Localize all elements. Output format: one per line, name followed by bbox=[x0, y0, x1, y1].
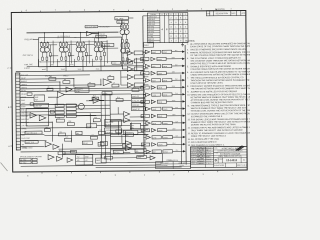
wire segment V3 bbox=[100, 79, 102, 85]
label box: OSC OUT 2 bbox=[96, 35, 107, 38]
resistor box R23 bbox=[66, 114, 76, 117]
component box CB18 bbox=[50, 110, 54, 113]
wire: driver chain link 3 bbox=[143, 68, 145, 71]
wire: driver D15 output arrow bbox=[173, 150, 186, 153]
wire: driver D10 input bbox=[144, 115, 146, 117]
gate U23 bbox=[93, 97, 100, 103]
wire: driver D11 input bbox=[144, 122, 146, 124]
wire segment V15 bbox=[136, 58, 138, 71]
transistor pair Q3/Q4 bbox=[59, 41, 68, 60]
gate U7A bbox=[48, 155, 54, 160]
wire: bottom long bus bbox=[21, 165, 161, 166]
junction J4 bbox=[110, 121, 111, 122]
register box B4 bbox=[132, 107, 146, 111]
wire segment OSCV2 bbox=[70, 41, 72, 64]
resistor box R20 bbox=[66, 104, 76, 107]
ground symbol below table bbox=[182, 43, 184, 45]
gate U2A bbox=[58, 92, 65, 98]
wire segment V13 bbox=[109, 94, 111, 118]
component box CB16 bbox=[90, 136, 97, 139]
relay contact box K1 bbox=[55, 104, 64, 107]
wire segment OSCH5 bbox=[68, 55, 74, 57]
box: sel aux bbox=[135, 149, 144, 152]
resistor box R21 bbox=[66, 107, 76, 110]
title block extra rules bbox=[214, 149, 247, 151]
junction divider bus J18 bbox=[143, 66, 144, 67]
wire: driver D13 input bbox=[144, 136, 146, 138]
wire segment LM7 bbox=[123, 151, 130, 153]
wire: driver D7 output arrow bbox=[172, 93, 185, 96]
wire: driver chain link 4 bbox=[143, 75, 145, 78]
wire: driver D4 input bbox=[143, 72, 145, 74]
wire: driver D7 input bbox=[144, 94, 146, 96]
gate U6A bbox=[45, 141, 51, 146]
gate U21A bbox=[125, 141, 131, 146]
label box: top right 1 bbox=[115, 17, 129, 20]
wire segment AUX4 bbox=[63, 152, 111, 154]
wire: driver D12 input bbox=[144, 129, 146, 131]
label box gate U13 bbox=[134, 83, 143, 87]
label pill: LINE FREQ CLK bbox=[25, 131, 42, 134]
wire segment AUX11 bbox=[45, 104, 55, 106]
junction J5 bbox=[110, 130, 111, 131]
driver stage D6 bbox=[141, 86, 167, 90]
wire: option internal bbox=[113, 157, 137, 159]
junction divider bus J19 bbox=[143, 73, 144, 74]
wire segment V1 bbox=[109, 118, 111, 160]
pill: option in bbox=[105, 156, 113, 159]
label box: top right 2 bbox=[117, 20, 129, 23]
relay contact box K2 bbox=[55, 108, 64, 111]
component box CB19 bbox=[108, 77, 114, 80]
wire: stage 3 to bottom bus bbox=[82, 60, 84, 71]
wire: driver chain link 2 bbox=[143, 61, 145, 64]
title block number row bbox=[217, 158, 219, 163]
wire: bottom second bus bbox=[96, 166, 182, 169]
component box CB8 bbox=[116, 99, 123, 102]
junction divider bus J23 bbox=[143, 101, 144, 102]
wire: driver chain link 12 bbox=[144, 132, 146, 135]
wire: driver chain link 14 bbox=[144, 147, 146, 150]
driver stage D14 bbox=[141, 143, 167, 147]
resistor box R22 bbox=[66, 111, 76, 114]
wire segment AUX2 bbox=[110, 135, 125, 137]
driver stage D10 bbox=[141, 114, 167, 118]
wire: gate U10 link bbox=[133, 60, 134, 62]
wire segment V14 bbox=[117, 121, 119, 135]
gate U20A bbox=[124, 111, 130, 116]
junction J1 bbox=[73, 78, 74, 79]
wire: driver D13 output arrow bbox=[172, 135, 185, 138]
pill: interlock row2 bbox=[76, 131, 82, 135]
wire: osc box internal hairline 2 bbox=[40, 60, 121, 63]
connector J1 pins bbox=[16, 75, 21, 148]
junction divider bus J27 bbox=[143, 130, 144, 131]
junction divider bus J20 bbox=[143, 80, 144, 81]
wire segment AUX14 bbox=[76, 111, 101, 113]
label pill: divider adj bbox=[102, 43, 114, 46]
application block bbox=[156, 161, 191, 169]
component box CB17 bbox=[30, 103, 34, 105]
driver stage D5 bbox=[145, 78, 171, 82]
resistor box R41 bbox=[32, 161, 37, 163]
table left column rows bbox=[147, 17, 159, 19]
wire segment H14 bbox=[65, 93, 131, 96]
wire: freq adj lead bbox=[33, 39, 38, 41]
wire segment AUX6 bbox=[133, 134, 148, 136]
driver stage D13 bbox=[146, 135, 172, 139]
wire: driver D1 input bbox=[143, 51, 145, 53]
resistor box R40 bbox=[32, 158, 37, 160]
wire: driver D9 input bbox=[144, 108, 146, 110]
wire: gate U11 link bbox=[133, 68, 134, 70]
wire segment LV5 bbox=[121, 135, 123, 143]
sub-bus frequency labels bbox=[42, 68, 100, 71]
transistor pair Q5/Q6 bbox=[76, 41, 85, 60]
wire: driver D6 output arrow bbox=[166, 86, 185, 89]
wire segment V12 bbox=[70, 131, 72, 143]
driver stage D7 bbox=[146, 93, 172, 97]
wire: driver D4 output arrow bbox=[166, 71, 185, 74]
wire segment OSCV4 bbox=[106, 40, 108, 63]
junction divider bus J30 bbox=[144, 151, 145, 152]
component box CB9 bbox=[56, 119, 64, 122]
component box CB15 bbox=[64, 138, 71, 141]
wire: driver D6 input bbox=[143, 87, 145, 89]
register box B3 bbox=[132, 103, 146, 107]
label pill: sync a bbox=[112, 61, 121, 64]
box: count control A9 bbox=[104, 128, 121, 134]
component box CB13 bbox=[93, 119, 100, 122]
label pill: P2 filter B bbox=[20, 161, 32, 164]
driver stage D1 bbox=[145, 50, 171, 54]
wire: vertical bus to table bbox=[142, 16, 145, 90]
gate U6B bbox=[53, 144, 59, 149]
wire segment H24 bbox=[63, 153, 106, 155]
label pill: interlock bbox=[86, 124, 96, 128]
wire: driver chain link 8 bbox=[144, 104, 146, 107]
driver stage D15 bbox=[146, 150, 172, 154]
wire segment AUX10 bbox=[20, 107, 55, 109]
driver stage D8 bbox=[141, 100, 167, 104]
wire segment AUX8 bbox=[20, 111, 55, 113]
junction dot stage 4 bbox=[98, 32, 99, 33]
transistor pair Q11/Q12 bbox=[121, 42, 130, 61]
transistor pair Q1/Q2 bbox=[40, 41, 49, 60]
wire segment LV3 bbox=[117, 107, 119, 114]
wire: driver D1 output arrow bbox=[172, 50, 185, 53]
wire segment V7 bbox=[56, 97, 58, 105]
junction divider bus J22 bbox=[143, 94, 144, 95]
pill: option link bbox=[113, 150, 123, 153]
wire segment OSCH2 bbox=[68, 44, 76, 46]
wire: gate U11 input stub bbox=[122, 68, 127, 70]
component box CB1 bbox=[49, 78, 56, 81]
wire: driver D5 output arrow bbox=[172, 78, 185, 81]
wire: buffer output bbox=[92, 33, 99, 35]
wire segment H18 bbox=[110, 129, 148, 131]
pill: option mid bbox=[137, 156, 147, 159]
wire segment AUX7 bbox=[97, 153, 111, 155]
pill: C14 bbox=[98, 142, 104, 146]
wire: gate U13 input stub bbox=[121, 84, 127, 86]
wire segment OSCV3 bbox=[88, 40, 90, 63]
component box CB10 bbox=[67, 122, 74, 125]
box: control below table bbox=[144, 42, 154, 47]
wire segment H8 bbox=[20, 121, 52, 123]
component box CB20 bbox=[132, 88, 139, 91]
scan noise overlay bbox=[0, 0, 1, 1]
label box: OSC OUT 1 bbox=[85, 25, 98, 28]
border zone ticks bbox=[9, 9, 218, 174]
wire segment LM4 bbox=[110, 142, 125, 144]
connector pin labels bbox=[21, 75, 31, 150]
wire: gate U12 input stub bbox=[121, 76, 127, 78]
wire: driver chain link 1 bbox=[143, 54, 145, 57]
wire segment OSCH6 bbox=[85, 55, 92, 57]
paper background bbox=[0, 0, 250, 177]
wire segment H3 bbox=[20, 84, 101, 87]
wire: driver D11 output arrow bbox=[172, 121, 185, 124]
register box B1 bbox=[131, 94, 145, 98]
box: schmitt trigger bbox=[75, 87, 89, 92]
wire: driver D10 output arrow bbox=[167, 114, 186, 117]
junction divider bus J24 bbox=[143, 108, 144, 109]
junction divider bus J16 bbox=[143, 51, 144, 52]
wire: gate U12 link bbox=[133, 76, 134, 78]
wire: driver D2 input bbox=[143, 58, 145, 60]
gate U10 bbox=[127, 59, 133, 64]
component box CB6 bbox=[92, 97, 99, 100]
wire: driver D3 output arrow bbox=[172, 64, 185, 67]
wire: mid horizontal runs bbox=[20, 78, 149, 155]
gate U22 bbox=[150, 156, 155, 160]
wire: driver chain link 9 bbox=[144, 111, 146, 114]
label box gate U10 bbox=[134, 59, 143, 63]
wire segment H1 bbox=[20, 78, 74, 80]
wire segment AUX9 bbox=[20, 114, 55, 116]
junction J2 bbox=[59, 81, 60, 82]
wire segment V5 bbox=[51, 122, 53, 141]
wire segment LV2 bbox=[104, 91, 106, 127]
gate U20B bbox=[124, 117, 130, 122]
component box CB5 bbox=[47, 88, 53, 91]
wire segment AUX3 bbox=[111, 149, 135, 151]
wire segment H23 bbox=[59, 147, 147, 150]
component box CB14 bbox=[98, 131, 105, 134]
label box gate U11 bbox=[134, 67, 143, 71]
junction divider bus J25 bbox=[143, 116, 144, 117]
wire segment H10 bbox=[20, 133, 44, 135]
wire: driver D8 input bbox=[144, 101, 146, 103]
driver stage D4 bbox=[141, 71, 167, 75]
wire segment AUX13 bbox=[76, 108, 110, 110]
gate U8 bbox=[67, 158, 73, 163]
component box CB7 bbox=[112, 84, 119, 87]
wire segment H20 bbox=[21, 150, 76, 152]
gate U21B bbox=[125, 146, 131, 151]
wire: driver D12 output arrow bbox=[167, 128, 186, 131]
wire: stage 4 to top bus bbox=[97, 32, 99, 41]
wire: gate U9 link bbox=[133, 52, 134, 54]
wire: lower osc bus bbox=[16, 70, 143, 71]
junction dot stage 1 bbox=[44, 32, 45, 33]
wire segment AUX15 bbox=[76, 115, 96, 117]
wire segment V4 bbox=[59, 82, 61, 92]
junction divider bus J28 bbox=[143, 137, 144, 138]
wire: stage 2 to top bus bbox=[62, 33, 64, 42]
transistor pair Q7/Q8 bbox=[94, 41, 103, 60]
amplifier block A7 bbox=[26, 109, 49, 126]
wire segment LM10 bbox=[100, 94, 102, 96]
wire: driver D5 input bbox=[143, 79, 145, 81]
component box CB4 bbox=[27, 93, 32, 95]
option enclosure box bbox=[101, 154, 163, 163]
wire segment H2 bbox=[20, 81, 60, 83]
label box gate U9 bbox=[134, 51, 143, 55]
title block approvals column bbox=[212, 147, 214, 168]
wire segment H22 bbox=[44, 134, 110, 137]
wire segment LM2 bbox=[110, 119, 123, 121]
wire segment V6 bbox=[89, 113, 91, 127]
wire segment H13 bbox=[20, 90, 143, 91]
junction divider bus J17 bbox=[143, 59, 144, 60]
gate U12 bbox=[127, 75, 133, 80]
junction dot stage 3 bbox=[80, 32, 81, 33]
wire segment H5 bbox=[20, 96, 34, 98]
box: gate aux bbox=[122, 144, 131, 148]
driver stage D12 bbox=[141, 128, 167, 132]
wire: intra-oscillator verticals bbox=[49, 40, 118, 64]
wire: stage 1 to top bus bbox=[43, 33, 45, 42]
wire segment H6 bbox=[48, 96, 57, 98]
wire segment AUX5 bbox=[110, 145, 122, 147]
component box CB21 bbox=[58, 152, 65, 155]
junction divider bus J21 bbox=[143, 87, 144, 88]
node: right boundary bus bbox=[185, 45, 186, 164]
wire: gate U10 input stub bbox=[122, 60, 127, 62]
transistor pair Q9/Q10 bbox=[120, 24, 129, 43]
wire: gate U13 link bbox=[133, 84, 134, 86]
wire segment V11 bbox=[124, 131, 126, 144]
power supply box cluster bbox=[76, 155, 93, 165]
label pill: P2 filter A bbox=[20, 158, 32, 161]
osc bottom component stubs bbox=[38, 44, 105, 66]
wire segment H7 bbox=[20, 103, 77, 105]
component box CB12 bbox=[58, 133, 65, 136]
op-amp U4 bbox=[30, 113, 37, 118]
gate U3 bbox=[103, 79, 112, 86]
wire segment H16 bbox=[97, 124, 131, 126]
wire: osc mid bus bbox=[27, 66, 143, 67]
box: divider aux bbox=[125, 133, 133, 137]
title block bbox=[190, 146, 247, 167]
label pill: sync b bbox=[124, 61, 133, 64]
wire segment LM1 bbox=[110, 113, 123, 115]
junction J9 bbox=[143, 87, 144, 88]
driver stage D2 bbox=[141, 57, 167, 61]
junction divider bus J26 bbox=[143, 123, 144, 124]
driver stage D11 bbox=[146, 121, 172, 125]
wire: top clock bus bbox=[26, 31, 118, 34]
wire: driver chain link 7 bbox=[144, 97, 146, 100]
op-amp U5 bbox=[39, 115, 46, 120]
wire segment OSCH3 bbox=[85, 44, 94, 46]
wire segment OSCH4 bbox=[49, 55, 58, 57]
wire: schematic right edge vertical bbox=[180, 75, 183, 164]
wire: stage 1 to bottom bus bbox=[46, 60, 48, 71]
wire segment V8 bbox=[129, 123, 131, 130]
wire segment H15 bbox=[86, 99, 131, 101]
wire: top label feed bbox=[98, 25, 122, 27]
connector J1 strip bbox=[16, 73, 21, 150]
relay contact box K3 bbox=[55, 111, 64, 114]
wire segment LM11 bbox=[104, 90, 106, 92]
gate U13 bbox=[127, 83, 133, 88]
wire: buffer drop bbox=[94, 38, 96, 42]
wire: stage column vertical bbox=[121, 20, 123, 25]
wire: driver chain link 11 bbox=[144, 125, 146, 128]
register box B2 bbox=[131, 98, 145, 102]
wire segment H4 bbox=[20, 88, 143, 89]
wire segment H21 bbox=[49, 114, 111, 117]
pill: relay K1 bbox=[82, 141, 92, 145]
wire segment H12 bbox=[20, 145, 44, 147]
component box CB2 bbox=[63, 81, 70, 84]
relay contact box K4 bbox=[55, 115, 64, 118]
wire: driver D15 input bbox=[144, 151, 146, 153]
pill: timer bbox=[102, 92, 112, 95]
wire segment V9 bbox=[61, 144, 63, 158]
oscillator enclosure box A1 bbox=[39, 37, 122, 67]
wire: driver chain link 10 bbox=[144, 118, 146, 121]
wire: mid vertical runs bbox=[52, 58, 138, 161]
signal timing table bbox=[147, 13, 188, 43]
box: toggle debounce bbox=[100, 141, 107, 145]
box: time base A8 bbox=[104, 120, 121, 127]
wire segment OSCV1 bbox=[52, 41, 54, 64]
wire segment V2 bbox=[73, 79, 75, 88]
wire: stage 3 to top bus bbox=[79, 32, 81, 41]
wire: gate U9 input stub bbox=[122, 52, 127, 54]
wire segment AUX1 bbox=[110, 133, 148, 135]
wire segment V10 bbox=[104, 135, 106, 158]
revision strip bbox=[206, 10, 246, 16]
wire: table top link bbox=[143, 15, 147, 17]
wire segment LM5 bbox=[110, 147, 125, 149]
op-amp buffer U1 bbox=[86, 31, 92, 36]
wire: driver D2 output arrow bbox=[166, 57, 185, 60]
wire: main divider bus lower bbox=[142, 90, 145, 155]
drawing border frame bbox=[11, 10, 247, 172]
wire segment H19 bbox=[140, 125, 148, 127]
approval signatures squiggles bbox=[197, 148, 204, 164]
label pill: MAINT TOGGLE bbox=[25, 140, 38, 143]
gate U7B bbox=[57, 156, 63, 161]
wire: gate U23 leads bbox=[89, 99, 93, 101]
wire segment OSCH1 bbox=[49, 44, 57, 46]
wire: osc box internal hairlines bbox=[40, 41, 108, 44]
box: option select bbox=[130, 123, 140, 128]
fold crease bottom-left bbox=[1, 163, 8, 172]
wire segment LM6 bbox=[131, 144, 143, 146]
junction J6 bbox=[52, 122, 53, 123]
pill: rate mult bbox=[123, 130, 138, 134]
junction dot stage 2 bbox=[63, 32, 64, 33]
driver stage D9 bbox=[146, 107, 172, 111]
wire segment AUX12 bbox=[76, 104, 110, 106]
wire segment OSCH7 bbox=[103, 47, 118, 49]
